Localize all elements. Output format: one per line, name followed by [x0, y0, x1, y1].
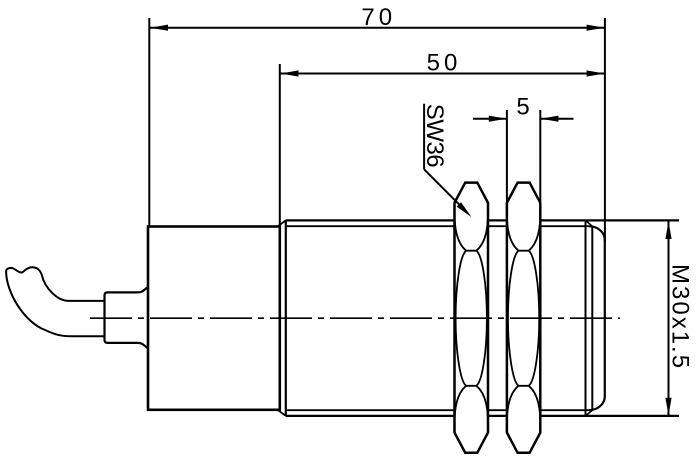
svg-text:M30x1.5: M30x1.5 [667, 264, 694, 370]
svg-text:5: 5 [516, 94, 533, 121]
svg-text:SW36: SW36 [421, 104, 448, 168]
svg-text:50: 50 [427, 50, 462, 77]
svg-text:70: 70 [361, 4, 396, 31]
